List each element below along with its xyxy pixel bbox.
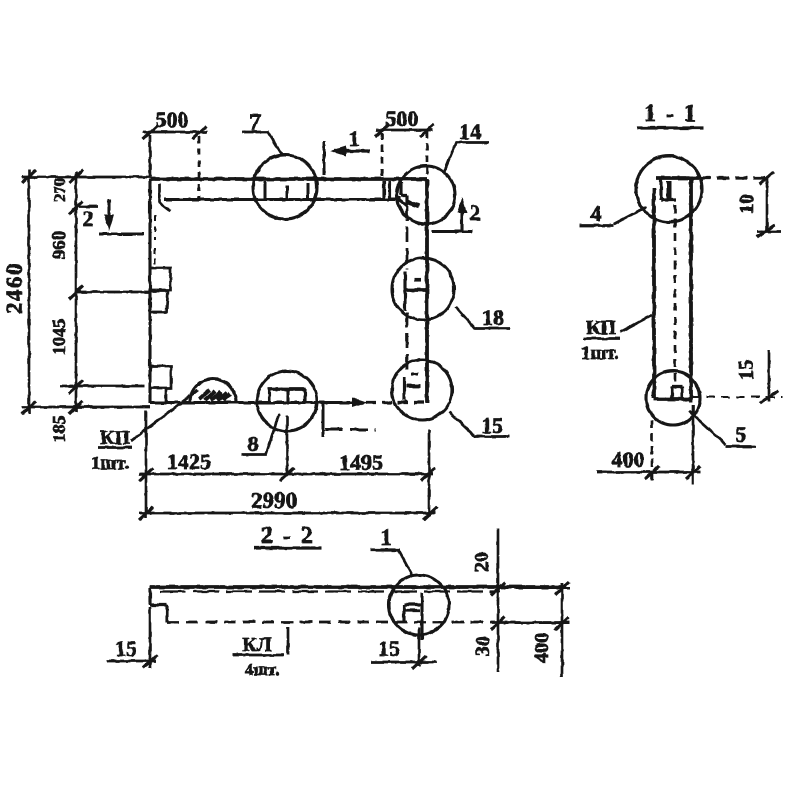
- svg-text:1045: 1045: [49, 319, 69, 355]
- dim line 2990: [139, 512, 435, 515]
- ext left down: [149, 607, 152, 668]
- label 8 leader: [241, 414, 279, 455]
- svg-text:2460: 2460: [2, 262, 27, 314]
- ticks: [143, 126, 206, 139]
- ext line left: [149, 135, 152, 177]
- callout circle bottom view: [389, 575, 449, 635]
- svg-text:30: 30: [472, 636, 494, 656]
- svg-text:1425: 1425: [167, 449, 211, 474]
- dim 15: [768, 350, 771, 402]
- rebar marks near circle 14: [384, 181, 390, 199]
- svg-text:2 - 2: 2 - 2: [261, 523, 315, 549]
- corner tick: [760, 172, 774, 184]
- ext line right: [428, 430, 431, 516]
- chain extension 1045-185: [60, 385, 144, 388]
- section mark 2 left: [83, 199, 145, 234]
- top bar bottom edge: [164, 198, 399, 201]
- ticks: [139, 468, 435, 481]
- callout circle 1-1 top: [636, 156, 702, 222]
- bottom edge dashed right part: [366, 401, 427, 404]
- dim line 1425/1495: [139, 473, 433, 476]
- label 4: [579, 224, 614, 227]
- КЛ label: [232, 654, 284, 657]
- top dark stroke: [667, 181, 672, 200]
- ext line mid: [286, 416, 289, 475]
- bar top edge second rough line: [160, 590, 500, 592]
- label 5: [726, 445, 756, 448]
- callout circle 18: [392, 258, 454, 320]
- wire stair inner corner top-right: [399, 196, 407, 206]
- svg-text:1: 1: [380, 525, 392, 550]
- bar bottom edge: [654, 397, 691, 401]
- ext line right: [426, 131, 429, 179]
- bar top edge: [150, 585, 565, 589]
- panel bottom edge with section arrow: [150, 401, 352, 404]
- left edge dashes: [154, 215, 156, 264]
- callout circle 1-1 bottom: [646, 371, 700, 425]
- top step: [661, 179, 676, 200]
- svg-text:2990: 2990: [251, 488, 297, 513]
- ext line left: [145, 410, 148, 518]
- svg-text:7: 7: [249, 110, 261, 136]
- svg-text:15: 15: [378, 636, 400, 661]
- dim 500 right line: [376, 129, 433, 132]
- svg-text:400: 400: [531, 633, 553, 663]
- КП label main view: [91, 390, 198, 474]
- bar top edge solid: [656, 176, 699, 180]
- svg-text:8: 8: [248, 431, 259, 456]
- chain extension 960-1045: [76, 291, 150, 294]
- left edge middle notch: [150, 268, 171, 312]
- lifting bump arc: [190, 379, 236, 402]
- callout circle 15 main: [392, 360, 452, 420]
- extension line bottom: [22, 406, 150, 409]
- label 1 bottom view: [371, 525, 413, 577]
- svg-text:4: 4: [591, 201, 602, 226]
- svg-text:1 - 1: 1 - 1: [644, 101, 698, 127]
- extension line top: [22, 176, 150, 179]
- bar bottom right solid: [500, 621, 570, 624]
- dim line 2460: [28, 170, 31, 414]
- dim col 20/30: [497, 529, 500, 672]
- section mark 1 bottom trace: [323, 403, 376, 437]
- ext line под 15: [418, 628, 421, 666]
- dim 400 bottom: [651, 420, 654, 480]
- label 18 leader: [456, 307, 510, 329]
- corner staircase circle 14: [401, 182, 407, 204]
- circle 18 inner marks: [403, 272, 406, 311]
- callout circle 8: [257, 371, 317, 431]
- svg-text:2: 2: [470, 200, 481, 225]
- ext line left dashed: [381, 133, 384, 177]
- ticks: [139, 507, 437, 520]
- bump hatch: [199, 390, 230, 400]
- svg-text:15: 15: [115, 636, 137, 661]
- svg-text:14: 14: [459, 119, 481, 144]
- svg-text:1495: 1495: [339, 450, 383, 475]
- svg-text:КЛ: КЛ: [242, 634, 272, 656]
- dim 500 left line: [143, 131, 207, 134]
- dim 15 right: [371, 661, 437, 664]
- panel top edge: [150, 177, 427, 181]
- left step: [150, 588, 167, 622]
- bottom dashed extension: [691, 396, 783, 398]
- corner weld mark circle 14: [407, 202, 419, 206]
- inner dashed line: [674, 205, 677, 385]
- bar right edge: [689, 176, 693, 402]
- svg-text:185: 185: [49, 416, 69, 443]
- svg-text:18: 18: [482, 305, 504, 330]
- title 2-2: [254, 523, 322, 549]
- callout circle 14: [397, 166, 455, 224]
- rebar marks in circle 7: [265, 181, 308, 199]
- svg-text:КП: КП: [100, 427, 131, 449]
- label 7 leader: [242, 132, 283, 156]
- bar top edge dashed extension: [699, 176, 768, 179]
- left edge bottom notch: [150, 366, 171, 402]
- svg-text:5: 5: [736, 422, 747, 447]
- ticks: [375, 124, 434, 137]
- svg-text:500: 500: [156, 107, 189, 132]
- svg-text:20: 20: [471, 552, 493, 572]
- bottom step: [672, 387, 682, 399]
- svg-text:400: 400: [612, 447, 645, 472]
- rebar jog inside: [420, 593, 423, 640]
- svg-text:4шт.: 4шт.: [245, 660, 279, 679]
- dim 15 left: [107, 660, 156, 663]
- bar bottom dashed edge: [167, 621, 500, 624]
- svg-text:15: 15: [734, 360, 758, 381]
- КП label section: [583, 337, 620, 340]
- panel right outer edge: [425, 179, 429, 403]
- circle 8 inner marks: [268, 387, 306, 391]
- left edge inner line top: [160, 184, 171, 211]
- svg-text:500: 500: [386, 106, 419, 131]
- bar left edge: [652, 188, 656, 398]
- dim col 400: [561, 583, 564, 677]
- right bar inner edge: [406, 206, 407, 403]
- circle 15 inner marks: [402, 377, 405, 400]
- svg-text:270: 270: [52, 178, 69, 202]
- label 14 leader: [444, 143, 489, 173]
- arrow on bottom edge: [352, 398, 368, 408]
- svg-text:КП: КП: [586, 317, 617, 339]
- callout circle 7: [253, 155, 317, 219]
- dim 10: [766, 178, 769, 232]
- svg-text:2: 2: [83, 206, 94, 231]
- chain extension 270 tick line: [79, 205, 98, 208]
- chain ticks: [69, 170, 83, 414]
- ext line right dashed: [198, 136, 201, 198]
- svg-text:15: 15: [481, 413, 503, 438]
- svg-text:1: 1: [349, 126, 360, 151]
- svg-text:1шт.: 1шт.: [91, 453, 129, 474]
- panel left edge: [148, 179, 151, 403]
- chain dim line: [75, 172, 78, 412]
- tick: [22, 170, 36, 414]
- svg-text:1шт.: 1шт.: [581, 343, 619, 364]
- svg-text:10: 10: [736, 194, 758, 214]
- svg-text:960: 960: [49, 231, 70, 260]
- section mark 1 top: [324, 126, 370, 175]
- label 15 leader: [449, 412, 509, 437]
- section mark 2 right: [432, 197, 481, 232]
